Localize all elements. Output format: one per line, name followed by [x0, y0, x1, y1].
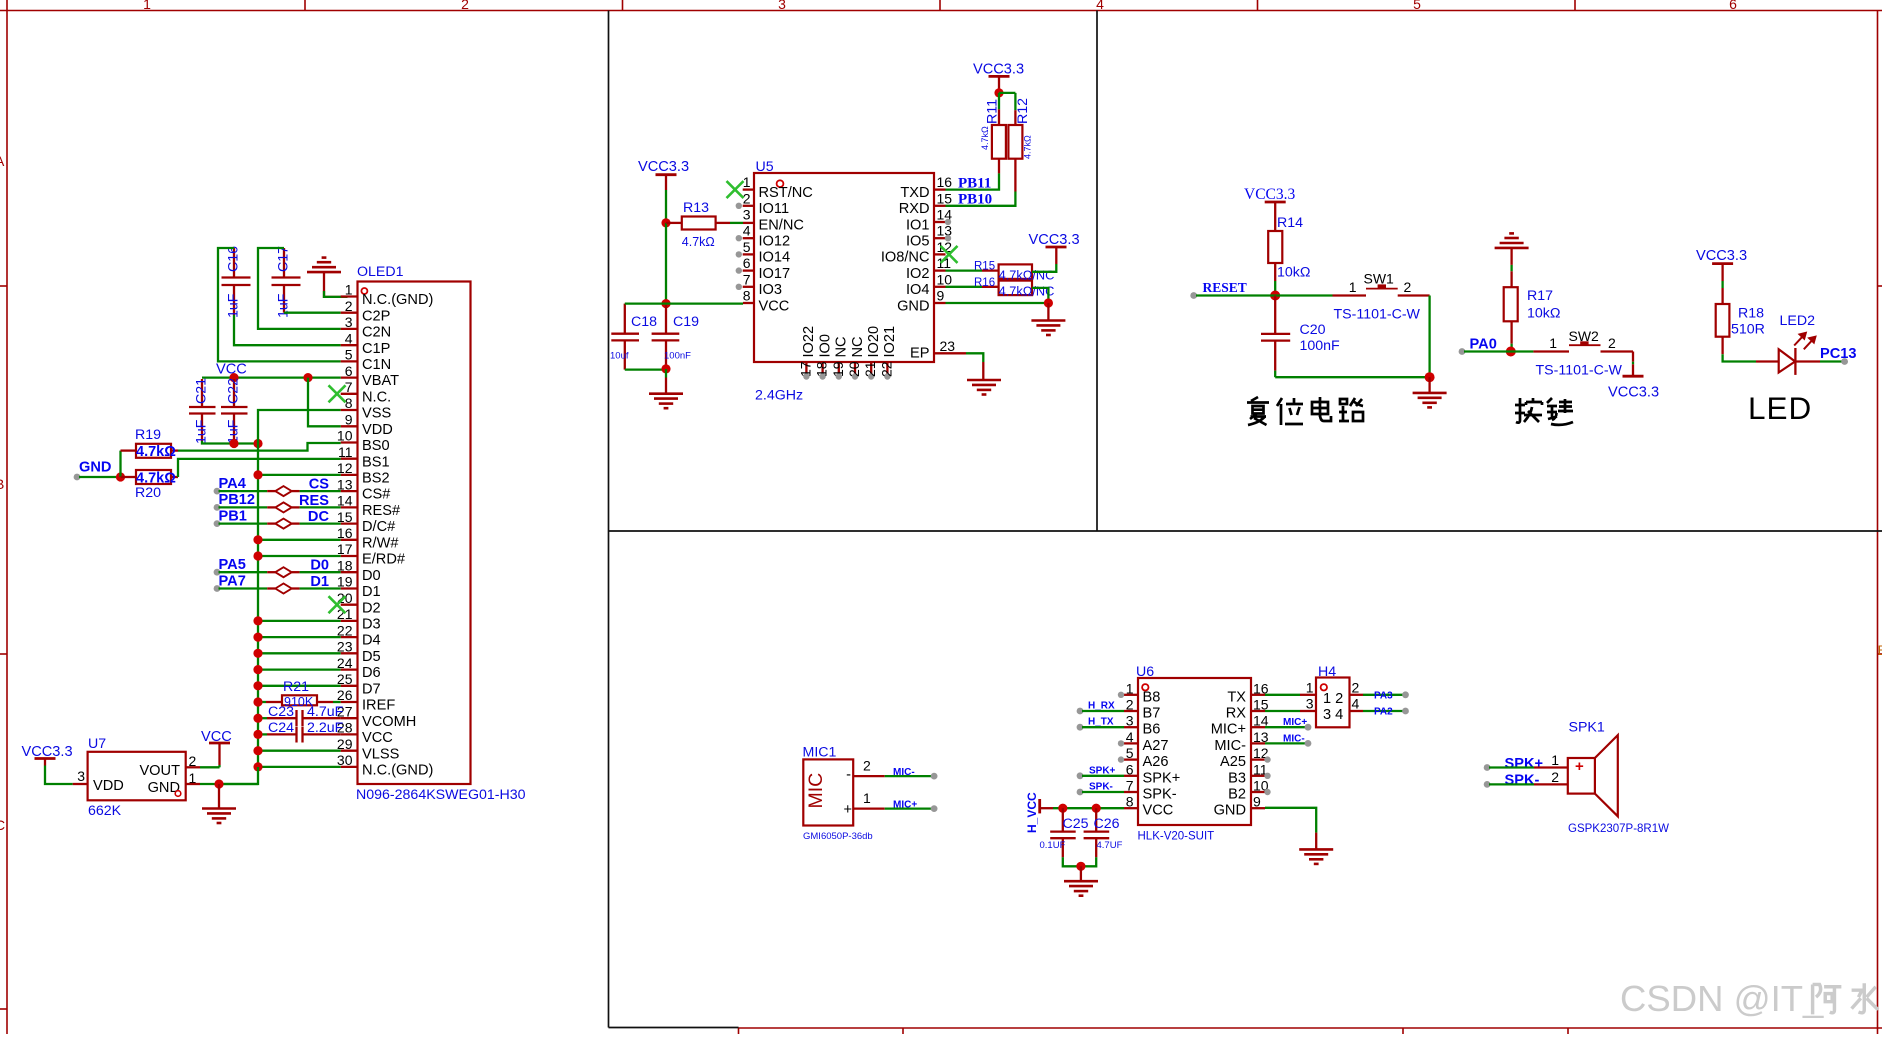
svg-text:EP: EP — [910, 346, 929, 362]
svg-text:1uF: 1uF — [226, 293, 242, 318]
svg-text:C2N: C2N — [362, 325, 391, 341]
svg-text:D1: D1 — [310, 574, 329, 590]
svg-text:1: 1 — [1306, 680, 1314, 696]
svg-text:U6: U6 — [1136, 664, 1154, 680]
svg-text:B: B — [0, 476, 4, 492]
svg-text:VCC: VCC — [759, 298, 790, 314]
power bar VCC3.3 (R11/R12) — [989, 75, 1010, 78]
svg-text:17: 17 — [797, 361, 813, 377]
wire GND bus to OLED pin29 VLSS — [258, 750, 341, 752]
svg-text:2: 2 — [1404, 279, 1412, 295]
microphone MIC1 body — [803, 759, 853, 825]
U6 left pins 1-8 — [1118, 680, 1180, 818]
wire PA4 to diamond — [214, 488, 221, 495]
wire H4 pin2 to PA3 — [1363, 694, 1404, 696]
junction — [253, 665, 262, 674]
junction — [1092, 804, 1101, 813]
svg-text:3: 3 — [77, 768, 85, 784]
resistor R19 — [121, 427, 179, 460]
wire R17 to PA0 node — [1510, 344, 1512, 352]
svg-text:IO8/NC: IO8/NC — [881, 250, 930, 266]
svg-text:1: 1 — [863, 790, 871, 806]
wire U6 pin14 MIC+ — [1265, 726, 1306, 728]
section title 按键 — [1515, 398, 1573, 425]
junction — [253, 697, 262, 706]
svg-text:4.7kΩ: 4.7kΩ — [136, 444, 176, 460]
svg-text:5: 5 — [1413, 0, 1421, 12]
black section divider horizontal — [609, 530, 1882, 532]
H_RX wire end dot — [1077, 708, 1084, 715]
U6 right pins 16-9 — [1211, 680, 1271, 818]
wire VCC3.3 stem (R11) — [998, 76, 1000, 88]
svg-text:1: 1 — [1349, 279, 1357, 295]
svg-text:NC: NC — [834, 336, 850, 357]
wire SW1 pin2 down — [1428, 296, 1430, 378]
svg-text:5: 5 — [1126, 745, 1134, 761]
sheet frame: bottom border line of sheet below — [739, 1027, 1882, 1029]
wire PA7 to diamond — [214, 585, 221, 592]
black section divider vertical 2 — [1096, 11, 1098, 532]
junction — [1058, 804, 1067, 813]
wire GND bus to OLED pin12 BS2 — [258, 474, 341, 476]
wire R20 to OLED pin11 BS1 — [178, 459, 341, 477]
svg-text:IO2: IO2 — [906, 266, 930, 282]
wire diamond to OLED pin19 — [292, 587, 300, 589]
svg-text:23: 23 — [940, 338, 956, 354]
wire ground to OLED pin1 — [324, 272, 348, 297]
wire GND bus to OLED pin17 E/RD# — [258, 555, 341, 557]
wire OLED pin8 VSS to GND bus — [258, 410, 341, 444]
svg-text:VDD: VDD — [362, 422, 393, 438]
svg-text:MIC+: MIC+ — [893, 799, 917, 810]
svg-text:CS: CS — [309, 477, 330, 493]
svg-text:14: 14 — [337, 493, 353, 509]
zone tick marks left — [0, 286, 7, 1009]
svg-text:16: 16 — [337, 525, 353, 541]
svg-text:PA3: PA3 — [1374, 690, 1393, 701]
U7 pin2 stub — [186, 766, 200, 768]
wire R14 to RESET node — [1274, 281, 1276, 296]
svg-text:RES: RES — [299, 493, 329, 509]
svg-text:B2: B2 — [1228, 787, 1246, 803]
svg-text:B3: B3 — [1228, 770, 1246, 786]
MIC+ wire end dot (U6) — [1305, 724, 1312, 731]
wire R15 to VCC3.3 — [1032, 264, 1056, 272]
svg-text:5: 5 — [345, 347, 353, 363]
H4 pin1 marker circle — [1321, 684, 1327, 690]
svg-text:IO22: IO22 — [801, 326, 817, 358]
junction — [229, 439, 238, 448]
svg-text:RST/NC: RST/NC — [759, 185, 813, 201]
net-tie diamond PA5/D0 — [275, 567, 291, 577]
junction — [253, 551, 262, 560]
svg-text:1: 1 — [345, 282, 353, 298]
svg-text:4.7kΩ: 4.7kΩ — [1023, 135, 1033, 159]
power bar VCC3.3 (U7) — [35, 757, 56, 760]
wire R11 to U5 pin16 TXD — [946, 173, 1000, 189]
svg-text:6: 6 — [1126, 761, 1134, 777]
svg-text:IO17: IO17 — [759, 266, 791, 282]
svg-text:10kΩ: 10kΩ — [1527, 306, 1560, 322]
wire U7 GND to bus — [200, 783, 258, 785]
svg-text:PA4: PA4 — [219, 476, 247, 492]
capacitor C24 — [258, 720, 344, 743]
U5 pin EP 23 — [910, 338, 966, 362]
MIC1 pin2 — [846, 758, 885, 784]
svg-text:GND: GND — [1214, 803, 1246, 819]
wire GND stem (U5 pin9) — [1047, 303, 1049, 321]
svg-text:IO11: IO11 — [759, 201, 790, 217]
module U6 body — [1138, 678, 1251, 825]
wire GND bus down to U7 GND node — [219, 767, 258, 784]
watermark CSDN @IT_阿水 — [1620, 978, 1878, 1019]
svg-text:21: 21 — [862, 361, 878, 377]
wire C18 top — [625, 302, 666, 304]
wire MIC- net — [885, 775, 932, 777]
wire R16 down to GND node — [1032, 288, 1048, 303]
wire H_VCC to U6 pin8 VCC — [1053, 807, 1124, 809]
connector OLED1 body — [358, 282, 471, 785]
wire GND stem (C25/C26) — [1080, 866, 1082, 881]
black section divider vertical 1 — [608, 11, 610, 1028]
wire diamond to OLED pin13 — [292, 490, 300, 492]
svg-text:C2P: C2P — [362, 308, 390, 324]
svg-text:C17: C17 — [276, 246, 292, 272]
svg-text:R/W#: R/W# — [362, 535, 399, 551]
svg-text:16: 16 — [937, 174, 953, 190]
resistor R11 — [980, 93, 1006, 173]
zone tick marks right — [1878, 286, 1882, 654]
svg-text:LED: LED — [1748, 390, 1812, 426]
svg-text:EN/NC: EN/NC — [759, 217, 804, 233]
wire GND bus to OLED pin21 — [258, 620, 341, 622]
svg-text:R18: R18 — [1738, 306, 1764, 322]
SPK+ wire end dot — [1484, 764, 1491, 771]
svg-text:11: 11 — [937, 255, 952, 271]
svg-text:5: 5 — [743, 239, 751, 255]
wire GND bus vertical — [257, 444, 259, 768]
svg-text:10kΩ: 10kΩ — [1277, 265, 1310, 281]
wire SW2 pin2 down — [1632, 352, 1634, 362]
svg-text:4: 4 — [345, 330, 353, 346]
svg-text:2.2uF: 2.2uF — [307, 720, 344, 736]
power bar VCC3.3 (reset) — [1265, 201, 1286, 204]
svg-text:C21: C21 — [194, 378, 210, 404]
wire R13 to U5 pin3 — [730, 222, 743, 224]
svg-text:2: 2 — [345, 298, 353, 314]
wire MIC+ net — [885, 807, 932, 809]
wire VCC3.3 green to U7 pin3 — [45, 766, 73, 785]
wire GND bus to OLED pin24 — [258, 668, 341, 670]
ground (C25/C26) — [1064, 881, 1098, 896]
wire C22 bottom — [233, 441, 235, 444]
svg-text:BS1: BS1 — [362, 454, 390, 470]
svg-text:R13: R13 — [683, 200, 709, 216]
svg-text:MIC1: MIC1 — [803, 745, 837, 761]
svg-text:RX: RX — [1226, 706, 1247, 722]
wire VCC3.3 down to VCC node — [665, 223, 667, 304]
wire VCC3.3 stem (U5) — [665, 175, 667, 190]
svg-text:VBAT: VBAT — [362, 373, 399, 389]
junction — [994, 88, 1003, 97]
svg-text:TS-1101-C-W: TS-1101-C-W — [1334, 307, 1421, 323]
svg-text:D1: D1 — [362, 584, 381, 600]
svg-text:15: 15 — [937, 190, 953, 206]
U6 pin1 marker circle — [1142, 684, 1148, 690]
svg-text:GND: GND — [79, 460, 111, 476]
svg-text:OLED1: OLED1 — [357, 264, 404, 280]
SPK- wire end dot — [1077, 789, 1084, 796]
wire GND to resistors — [79, 476, 121, 478]
svg-text:C22: C22 — [226, 378, 242, 404]
net-tie diamond PB1/DC — [275, 519, 291, 529]
junction — [1506, 347, 1516, 357]
svg-text:662K: 662K — [88, 803, 122, 819]
svg-text:VLSS: VLSS — [362, 746, 400, 762]
svg-text:C1P: C1P — [362, 341, 390, 357]
resistor R21 — [258, 679, 341, 709]
svg-text:LED2: LED2 — [1780, 313, 1816, 329]
resistor R17 — [1504, 271, 1561, 343]
H4 pin1 stub — [1300, 694, 1316, 696]
MIC- wire end dot (U6) — [1305, 740, 1312, 747]
svg-text:RESET: RESET — [1203, 280, 1247, 295]
svg-text:MIC-: MIC- — [893, 767, 915, 778]
svg-text:510R: 510R — [1731, 322, 1765, 338]
wire VCC3.3 stem (R15) — [1055, 247, 1057, 264]
header H4 body — [1316, 678, 1350, 728]
H4 pin numbers and labels — [1306, 680, 1360, 724]
ground (EP) — [967, 380, 1001, 395]
junction — [253, 633, 262, 642]
svg-text:D2: D2 — [362, 600, 381, 616]
svg-text:C25: C25 — [1063, 816, 1089, 832]
PC13 wire end dot — [1841, 358, 1848, 365]
svg-text:26: 26 — [337, 687, 353, 703]
net-tie diamond PA7/D1 — [275, 584, 291, 594]
svg-text:PB12: PB12 — [219, 492, 256, 508]
svg-text:1uF: 1uF — [276, 293, 292, 318]
svg-text:30: 30 — [337, 752, 353, 768]
svg-text:SPK-: SPK- — [1143, 787, 1177, 803]
wire R12 to U5 pin15 RXD — [946, 192, 1016, 206]
svg-text:N096-2864KSWEG01-H30: N096-2864KSWEG01-H30 — [356, 787, 526, 803]
svg-text:2: 2 — [1608, 335, 1616, 351]
svg-text:1 2: 1 2 — [1323, 691, 1343, 707]
wire C21/C22 bottom rail — [202, 441, 258, 444]
junction — [214, 779, 223, 788]
svg-text:4.7uF: 4.7uF — [307, 704, 344, 720]
svg-text:SW2: SW2 — [1569, 328, 1600, 344]
wire to VCC3.3 bar — [1632, 364, 1634, 376]
junction — [253, 470, 262, 479]
svg-text:VCC3.3: VCC3.3 — [638, 159, 689, 175]
svg-text:DC: DC — [308, 509, 330, 525]
wire GND stem (reset) — [1428, 377, 1430, 393]
ground (U6 pin9) — [1299, 849, 1333, 864]
svg-text:1: 1 — [1551, 752, 1559, 768]
svg-text:9: 9 — [937, 288, 945, 304]
svg-text:U7: U7 — [88, 736, 106, 752]
U5 pin8 stub — [743, 302, 754, 304]
svg-text:A25: A25 — [1220, 754, 1246, 770]
wire GND bus to OLED pin23 — [258, 652, 341, 654]
svg-text:H4: H4 — [1318, 664, 1336, 680]
svg-text:100nF: 100nF — [664, 351, 691, 362]
resistor R18 — [1716, 288, 1765, 354]
sheet frame: top border line — [0, 10, 1882, 12]
svg-text:13: 13 — [337, 476, 353, 492]
capacitor C26 — [1084, 808, 1123, 857]
svg-text:PA7: PA7 — [219, 573, 246, 589]
svg-text:11: 11 — [338, 444, 353, 460]
U5 pin1 marker circle — [777, 180, 784, 187]
wire R18 to LED — [1723, 354, 1756, 361]
MIC- wire end dot — [931, 773, 938, 780]
svg-text:D6: D6 — [362, 665, 381, 681]
wire GND bus to OLED pin30 — [258, 766, 341, 768]
wire GND stem (U6 pin9) — [1315, 833, 1317, 850]
wire PA0 — [1464, 350, 1533, 352]
wire RESET — [1196, 294, 1333, 296]
svg-text:PA5: PA5 — [219, 557, 246, 573]
svg-text:R20: R20 — [135, 485, 161, 501]
resistor R13 — [666, 200, 730, 249]
wire VCC3.3 stem (LED) — [1721, 264, 1723, 281]
ground (U5 pin9) — [1031, 321, 1065, 336]
svg-text:VOUT: VOUT — [139, 763, 180, 779]
svg-text:VCC: VCC — [1143, 803, 1174, 819]
GND wire end dot — [74, 474, 81, 481]
svg-text:GND: GND — [897, 298, 929, 314]
svg-text:VDD: VDD — [93, 778, 124, 794]
wire R19 to OLED pin10 BS0 — [178, 443, 341, 451]
wire PB1 to diamond — [214, 520, 221, 527]
wire C26 bottom — [1081, 857, 1096, 866]
PA3 wire end dot — [1402, 691, 1409, 698]
ground above R17 — [1495, 233, 1529, 248]
MIC1 pin1 — [843, 790, 884, 818]
junction — [253, 762, 262, 771]
svg-text:VCC3.3: VCC3.3 — [1244, 186, 1295, 203]
svg-text:29: 29 — [337, 736, 353, 752]
svg-text:8: 8 — [1126, 794, 1134, 810]
svg-text:R17: R17 — [1527, 288, 1553, 304]
U7 pin texts — [77, 753, 196, 796]
MIC+ wire end dot — [931, 805, 938, 812]
svg-text:4: 4 — [1352, 696, 1360, 712]
svg-text:D3: D3 — [362, 617, 381, 633]
svg-text:R11: R11 — [985, 99, 1001, 124]
H_TX wire end dot — [1077, 724, 1084, 731]
wire GND bus to OLED pin25 — [258, 685, 341, 687]
svg-text:IO3: IO3 — [759, 282, 783, 298]
svg-text:R21: R21 — [283, 679, 309, 695]
svg-text:4.7kΩ: 4.7kΩ — [980, 126, 990, 150]
wire VCC bar to VOUT — [218, 743, 220, 765]
svg-text:3: 3 — [1126, 713, 1134, 729]
chip U5 body — [754, 173, 934, 362]
svg-text:1uF: 1uF — [194, 419, 210, 444]
svg-text:D7: D7 — [362, 681, 381, 697]
svg-text:0.1UF: 0.1UF — [1040, 840, 1066, 851]
wire GND up to R19 — [119, 451, 121, 477]
no-connect X on OLED pin7 — [329, 385, 346, 402]
svg-text:IO4: IO4 — [906, 282, 930, 298]
svg-text:17: 17 — [337, 541, 353, 557]
svg-text:D0: D0 — [362, 568, 381, 584]
svg-text:N.C.(GND): N.C.(GND) — [362, 763, 433, 779]
svg-text:SPK+: SPK+ — [1505, 756, 1544, 772]
svg-text:B: B — [1878, 642, 1882, 658]
OLED1 pin1 marker circle — [361, 288, 367, 294]
svg-text:PA2: PA2 — [1374, 707, 1393, 718]
svg-text:SPK1: SPK1 — [1569, 720, 1605, 736]
junction — [253, 714, 262, 723]
capacitor C22 — [221, 378, 248, 444]
U5 right pins 16-9 — [881, 174, 952, 314]
OLED1 pins 1-30 (stubs, numbers, names) — [337, 282, 433, 779]
svg-text:2: 2 — [1551, 769, 1559, 785]
svg-text:R12: R12 — [1015, 98, 1031, 124]
svg-text:9: 9 — [345, 412, 353, 428]
junction — [1076, 862, 1085, 871]
resistor R14 — [1268, 215, 1310, 281]
regulator U7 body — [88, 752, 186, 801]
power bar VCC3.3 (LED) — [1712, 262, 1733, 265]
capacitor C23 — [258, 704, 344, 726]
wire SPK- to U6 pin7 — [1082, 791, 1124, 793]
junction — [303, 373, 312, 382]
wire VCC node to U5 pin8 — [666, 302, 743, 304]
junction — [1044, 298, 1053, 307]
power bar VCC3.3 (R15) — [1046, 246, 1067, 249]
resistor R15 — [946, 261, 1055, 283]
svg-text:HLK-V20-SUIT: HLK-V20-SUIT — [1138, 831, 1215, 843]
svg-text:4: 4 — [1126, 729, 1134, 745]
svg-text:IO12: IO12 — [759, 234, 791, 250]
wire diamond to OLED pin14 — [292, 506, 300, 508]
svg-text:6: 6 — [743, 255, 751, 271]
capacitor C20 — [1261, 296, 1340, 371]
ground (reset) — [1413, 393, 1447, 408]
svg-text:18: 18 — [337, 557, 353, 573]
wire VCC3.3 down — [665, 190, 667, 223]
wire GND bus to OLED pin16 R/W# — [258, 539, 341, 541]
junction — [1425, 372, 1435, 382]
svg-text:2.4GHz: 2.4GHz — [755, 388, 803, 404]
svg-text:A27: A27 — [1143, 738, 1169, 754]
junction — [253, 535, 262, 544]
wire C17 top to OLED pin3 C2N — [258, 248, 341, 329]
wire U6 TX to H4 pin1 — [1265, 694, 1300, 696]
svg-text:4: 4 — [1096, 0, 1104, 12]
svg-text:19: 19 — [337, 574, 353, 590]
zone letters left (clipped) — [0, 153, 5, 833]
resistor R16 — [946, 277, 1055, 299]
junction — [253, 616, 262, 625]
power bar H_VCC (vertical) — [1038, 799, 1041, 813]
wire GND stem (C18/C19) — [665, 378, 667, 394]
svg-text:B7: B7 — [1143, 706, 1161, 722]
wire GND bus to OLED pin22 — [258, 636, 341, 638]
svg-text:C23: C23 — [268, 704, 294, 720]
svg-text:C20: C20 — [1300, 322, 1326, 338]
svg-text:MIC+: MIC+ — [1211, 722, 1246, 738]
svg-text:+: + — [843, 802, 852, 818]
wire PA5 to diamond — [214, 569, 221, 576]
zone tick marks top — [305, 0, 1575, 11]
